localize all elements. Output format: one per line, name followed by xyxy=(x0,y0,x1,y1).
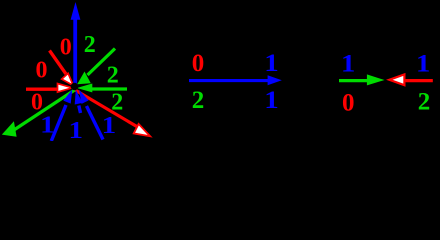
svg-text:0: 0 xyxy=(60,35,72,61)
wire: blue horizontal shaft xyxy=(189,79,269,82)
svg-text:2: 2 xyxy=(84,32,96,58)
svg-text:1: 1 xyxy=(264,50,279,77)
arrow (blue head, pointing right) xyxy=(268,75,282,85)
arrow (green solid head, incoming from upper-right) xyxy=(77,72,91,85)
svg-text:1: 1 xyxy=(69,118,84,141)
svg-text:1: 1 xyxy=(264,87,279,114)
wire: blue vertical shaft up from node xyxy=(73,18,77,88)
wire: green horizontal shaft xyxy=(339,79,368,82)
arrow (green solid head, incoming from right) xyxy=(77,84,93,93)
svg-text:1: 1 xyxy=(341,50,356,77)
svg-text:2: 2 xyxy=(107,62,119,88)
svg-text:1: 1 xyxy=(40,112,55,138)
svg-text:0: 0 xyxy=(192,50,205,77)
arrow (blue, outgoing up) head xyxy=(71,2,81,20)
arrow (blue head, incoming from bottom-left) xyxy=(63,89,72,103)
svg-text:1: 1 xyxy=(416,50,431,77)
arrow (green head, pointing right) xyxy=(367,74,385,85)
arrow (red/white head, incoming from upper-left) xyxy=(62,73,74,85)
wire: green diagonal shaft from upper-right into node xyxy=(88,49,116,76)
arrow (green solid head, outgoing lower-left) xyxy=(2,121,17,137)
wire: blue short shaft incoming from bottom xyxy=(79,106,81,114)
svg-text:0: 0 xyxy=(36,58,48,84)
svg-text:1: 1 xyxy=(102,113,117,139)
wire: red horizontal shaft from left into node xyxy=(26,87,59,90)
svg-text:2: 2 xyxy=(111,90,123,116)
arrow (blue head, incoming from bottom-right) xyxy=(79,90,89,104)
wire: green horizontal shaft from right into node xyxy=(92,87,127,90)
svg-text:2: 2 xyxy=(418,89,431,116)
wire: red horizontal shaft xyxy=(404,79,433,82)
node: black center dot xyxy=(71,83,79,91)
wire: red shaft outgoing to lower-right xyxy=(76,90,140,128)
wire: blue shaft incoming from bottom-right xyxy=(87,106,104,140)
arrow (red/white head, outgoing lower-right) xyxy=(134,124,151,136)
svg-text:0: 0 xyxy=(342,90,355,117)
wire: red diagonal shaft from upper-left into node xyxy=(50,51,67,75)
arrow (red/white head, pointing left) xyxy=(389,74,404,85)
arrow (blue head, incoming from bottom) xyxy=(75,90,83,105)
svg-text:2: 2 xyxy=(192,87,205,114)
arrow (red/white head, incoming from left) xyxy=(58,84,73,93)
wire: green shaft outgoing to lower-left xyxy=(13,90,75,131)
wire: blue shaft incoming from bottom-left xyxy=(51,105,66,141)
